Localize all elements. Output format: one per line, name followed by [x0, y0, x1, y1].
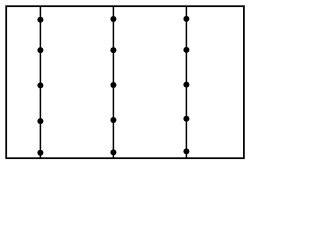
node L3-E — [183, 148, 189, 154]
wire bus L2 — [112, 6, 114, 158]
node L3-B — [183, 47, 189, 53]
node L3-C — [183, 82, 189, 88]
node L2-A — [110, 16, 116, 22]
node L3-D — [183, 116, 189, 122]
node L2-D — [110, 117, 116, 123]
node L3-A — [183, 16, 189, 22]
node L1-D — [37, 118, 43, 124]
node L1-C — [37, 82, 43, 88]
node L1-B — [37, 47, 43, 53]
wire bus L1 — [39, 6, 41, 158]
node L2-B — [110, 47, 116, 53]
node L2-E — [110, 149, 116, 155]
node L1-E — [37, 150, 43, 156]
node L1-A — [37, 17, 43, 23]
wire bus L3 — [185, 6, 187, 158]
node L2-C — [110, 82, 116, 88]
